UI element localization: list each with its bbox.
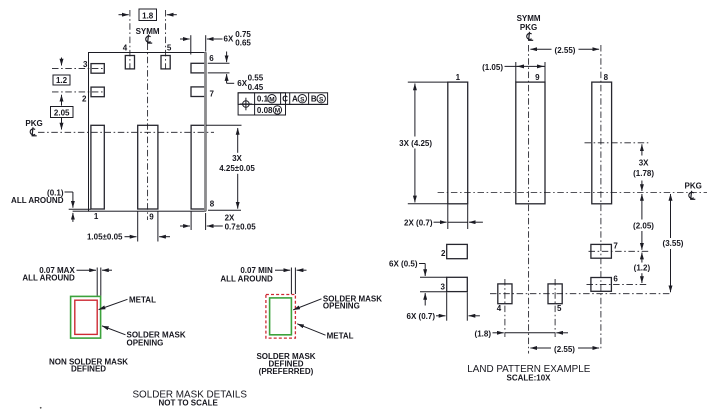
svg-text:DEFINED: DEFINED bbox=[71, 365, 106, 374]
solder mask defined: metal pad (green) bbox=[270, 298, 292, 335]
svg-text:6X (0.7): 6X (0.7) bbox=[407, 312, 436, 321]
svg-text:6: 6 bbox=[209, 54, 214, 63]
svg-text:SCALE:10X: SCALE:10X bbox=[506, 374, 551, 383]
pads 6/7/8 column centerline bbox=[600, 45, 602, 349]
pkg centerline symbol left bbox=[30, 127, 36, 136]
svg-text:METAL: METAL bbox=[327, 331, 354, 340]
svg-text:1: 1 bbox=[94, 212, 99, 221]
land pad 4 bbox=[498, 284, 512, 304]
pad 3 centerline bbox=[52, 67, 105, 69]
svg-text:(1.05): (1.05) bbox=[482, 63, 503, 72]
svg-text:2: 2 bbox=[82, 95, 87, 104]
svg-text:0.1: 0.1 bbox=[257, 95, 269, 104]
geometric tolerance frame bbox=[238, 93, 328, 115]
svg-text:8: 8 bbox=[604, 73, 609, 82]
pad 4 centerline bbox=[129, 10, 131, 70]
svg-text:(3.55): (3.55) bbox=[663, 239, 684, 248]
svg-text:ALL AROUND: ALL AROUND bbox=[11, 196, 64, 205]
svg-text:(1.78): (1.78) bbox=[633, 169, 654, 178]
svg-text:8: 8 bbox=[210, 199, 215, 208]
svg-text:5: 5 bbox=[557, 304, 562, 313]
svg-text:A: A bbox=[292, 95, 298, 104]
svg-text:M: M bbox=[275, 108, 280, 115]
land pad 5 bbox=[548, 284, 562, 304]
metal label leader bbox=[99, 296, 156, 310]
svg-text:3X: 3X bbox=[639, 159, 649, 168]
svg-text:SYMM: SYMM bbox=[136, 27, 160, 36]
dimension (3.55) bbox=[663, 194, 684, 292]
svg-text:3X: 3X bbox=[232, 154, 242, 163]
svg-text:1.8: 1.8 bbox=[142, 11, 154, 20]
svg-text:M: M bbox=[269, 96, 274, 103]
pad 8 horizontal centerline bbox=[585, 142, 649, 144]
dimension 3X (4.25) bbox=[399, 82, 448, 204]
svg-text:6: 6 bbox=[613, 274, 618, 283]
dimension (2.55) top bbox=[530, 46, 599, 55]
dimension (1.05) bbox=[482, 62, 545, 82]
svg-text:PKG: PKG bbox=[685, 182, 702, 191]
svg-text:SYMM: SYMM bbox=[517, 14, 541, 23]
svg-text:(1.2): (1.2) bbox=[634, 264, 651, 273]
svg-text:OPENING: OPENING bbox=[323, 302, 360, 311]
svg-text:(2.55): (2.55) bbox=[554, 345, 575, 354]
dimension 1.2 / 2.05 stack bbox=[51, 58, 74, 130]
dimension 0.07 min bbox=[220, 266, 306, 294]
svg-text:0.65: 0.65 bbox=[235, 38, 251, 47]
pad 9 (bottom center large) bbox=[138, 125, 158, 209]
svg-text:ALL AROUND: ALL AROUND bbox=[220, 274, 273, 283]
svg-text:9: 9 bbox=[535, 73, 540, 82]
pad 7 horizontal centerline bbox=[589, 250, 649, 252]
pad 6 horizontal centerline bbox=[587, 283, 649, 285]
svg-text:(1.8): (1.8) bbox=[475, 330, 492, 339]
symm vertical centerline right bbox=[528, 45, 530, 354]
svg-text:(2.55): (2.55) bbox=[555, 46, 576, 55]
package body right edge thick gray bbox=[204, 52, 207, 211]
dimension 1.8 top bbox=[119, 9, 177, 21]
pad 4 (top left) bbox=[125, 56, 134, 69]
dimension 2X (0.7) bbox=[404, 205, 483, 230]
non solder mask defined: metal pad (green) bbox=[71, 296, 101, 338]
pad 4 vertical centerline bbox=[504, 279, 506, 337]
svg-text:2X: 2X bbox=[225, 214, 235, 223]
dimension 3X 4.25 bbox=[206, 125, 255, 210]
position symbol bbox=[243, 101, 250, 108]
solder mask defined: solder mask opening boundary (red dashed) bbox=[266, 295, 296, 339]
dimension 3X (1.78) bbox=[633, 144, 654, 191]
stray dot bbox=[40, 407, 42, 409]
svg-text:B: B bbox=[311, 95, 317, 104]
pads 4/5 row centerline bbox=[490, 293, 672, 295]
svg-text:4: 4 bbox=[497, 304, 502, 313]
svg-text:7: 7 bbox=[613, 242, 618, 251]
land pad 6 bbox=[591, 278, 612, 292]
symm vertical centerline bbox=[147, 44, 149, 221]
svg-text:S: S bbox=[300, 96, 305, 103]
svg-text:2.05: 2.05 bbox=[54, 108, 70, 117]
svg-text:S: S bbox=[319, 96, 324, 103]
svg-text:9: 9 bbox=[149, 213, 154, 222]
svg-text:C: C bbox=[282, 95, 288, 104]
svg-text:7: 7 bbox=[210, 90, 215, 99]
svg-text:0.08: 0.08 bbox=[257, 106, 273, 115]
land pad 2 bbox=[447, 244, 468, 258]
dimension 6X 0.75/0.65 bbox=[180, 30, 251, 54]
metal label leader (right detail) bbox=[297, 324, 353, 341]
svg-text:2X (0.7): 2X (0.7) bbox=[404, 218, 433, 227]
pkg horizontal centerline bbox=[38, 131, 214, 133]
dimension 6X (0.7) bbox=[407, 292, 480, 321]
symm centerline symbol bbox=[146, 35, 152, 44]
non solder mask defined: solder mask opening (red) bbox=[75, 300, 97, 334]
dimension 0.07 max bbox=[22, 266, 112, 296]
land pad 3 bbox=[447, 277, 468, 291]
pad 2 (left lower) bbox=[91, 87, 104, 97]
svg-text:ALL AROUND: ALL AROUND bbox=[22, 274, 75, 283]
pkg horizontal centerline right bbox=[438, 192, 707, 194]
pad 8 (bottom right large) bbox=[191, 125, 205, 209]
svg-text:METAL: METAL bbox=[129, 296, 156, 305]
svg-text:4.25±0.05: 4.25±0.05 bbox=[219, 164, 255, 173]
pad 2 centerline bbox=[52, 91, 105, 93]
solder mask opening label leader (right detail) bbox=[293, 294, 382, 310]
svg-text:(2.05): (2.05) bbox=[633, 221, 654, 230]
svg-text:6X: 6X bbox=[237, 79, 247, 88]
dimension 6X (0.5) bbox=[389, 260, 447, 306]
svg-text:1.05±0.05: 1.05±0.05 bbox=[87, 233, 123, 242]
pad 6 (right upper) bbox=[191, 63, 206, 73]
svg-text:6X: 6X bbox=[224, 35, 234, 44]
svg-text:(PREFERRED): (PREFERRED) bbox=[259, 367, 314, 376]
pad 7 (right lower) bbox=[191, 87, 206, 97]
package body outline bbox=[89, 53, 206, 212]
svg-text:4: 4 bbox=[123, 44, 128, 53]
pad 5 centerline bbox=[165, 10, 167, 70]
pad 5 (top right) bbox=[161, 56, 170, 69]
svg-text:OPENING: OPENING bbox=[127, 338, 164, 347]
dimension (2.55) bottom bbox=[530, 345, 599, 354]
land pad 1 bbox=[448, 82, 468, 204]
pad 5 vertical centerline bbox=[554, 279, 556, 337]
land pad 9 bbox=[516, 82, 545, 204]
dimension 1.05 bottom bbox=[87, 212, 170, 242]
dimension (2.05) right bbox=[633, 194, 654, 250]
svg-text:3: 3 bbox=[441, 282, 446, 291]
svg-text:6X (0.5): 6X (0.5) bbox=[389, 260, 418, 269]
dimension (1.2) bbox=[634, 253, 651, 283]
dimension (1.8) bottom bbox=[475, 330, 568, 339]
svg-text:1.2: 1.2 bbox=[56, 76, 68, 85]
solder mask opening label leader bbox=[102, 326, 186, 348]
svg-text:5: 5 bbox=[167, 44, 172, 53]
svg-text:0.55: 0.55 bbox=[248, 74, 264, 83]
pad 1 (bottom left large) bbox=[91, 125, 104, 209]
svg-text:0.45: 0.45 bbox=[248, 83, 264, 92]
land pad 7 bbox=[591, 244, 612, 258]
svg-text:NOT TO SCALE: NOT TO SCALE bbox=[158, 399, 218, 408]
svg-text:PKG: PKG bbox=[520, 23, 537, 32]
svg-text:0.7±0.05: 0.7±0.05 bbox=[225, 222, 257, 231]
land pad 8 bbox=[592, 82, 612, 204]
svg-text:1: 1 bbox=[456, 73, 461, 82]
svg-text:2: 2 bbox=[441, 249, 446, 258]
dimension 2X 0.7 bottom right bbox=[180, 212, 256, 232]
svg-text:PKG: PKG bbox=[25, 119, 42, 128]
svg-text:3X (4.25): 3X (4.25) bbox=[399, 139, 432, 148]
svg-text:3: 3 bbox=[83, 60, 88, 69]
dimension (0.1) all around bbox=[11, 188, 91, 222]
dimension 6X 0.55/0.45 bbox=[208, 52, 264, 92]
pad 3 (left upper) bbox=[91, 64, 104, 74]
